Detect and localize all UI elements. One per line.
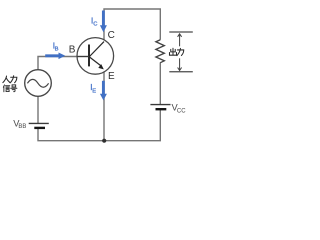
transistor Q1 circle xyxy=(77,38,114,75)
wire: resistor to VCC battery xyxy=(159,62,161,104)
output marker down arrow xyxy=(179,58,181,70)
transistor base lead xyxy=(77,56,89,58)
battery VCC short plate xyxy=(156,108,167,110)
output marker top bar xyxy=(169,31,193,33)
current arrow IB xyxy=(45,54,59,57)
svg-text:CC: CC xyxy=(177,108,186,114)
battery VCC long plate xyxy=(150,104,170,106)
battery VBB short plate xyxy=(34,127,45,129)
wire: collector to top rail to resistor xyxy=(104,9,160,42)
svg-text:B: B xyxy=(55,46,59,52)
wire: source top to base xyxy=(38,57,77,70)
svg-text:C: C xyxy=(93,22,97,28)
transistor collector stroke xyxy=(90,42,105,57)
resistor RL zigzag xyxy=(156,40,164,63)
svg-text:E: E xyxy=(92,88,96,94)
AC source (input signal) xyxy=(25,70,52,97)
svg-text:BB: BB xyxy=(18,124,26,130)
transistor emitter stroke with arrow xyxy=(90,57,102,66)
output marker bottom bar xyxy=(169,71,193,73)
wire: AC source to VBB battery xyxy=(37,96,39,123)
svg-text:E: E xyxy=(108,71,115,82)
current arrow IC xyxy=(102,11,105,26)
kanji 力 (output char 2) xyxy=(177,48,184,55)
kanji 号 (input char 4) xyxy=(11,85,17,92)
current arrow IE xyxy=(102,81,105,94)
transistor base bar xyxy=(88,45,90,67)
junction node at emitter/bottom rail xyxy=(102,139,106,143)
wire: emitter down to bottom rail xyxy=(103,69,105,140)
kanji 信 (input char 3) xyxy=(3,85,9,92)
kanji 出 (output char 1) xyxy=(169,48,176,55)
svg-text:B: B xyxy=(69,44,76,55)
kanji 力 (input char 2) xyxy=(10,76,17,83)
wire: bottom rail xyxy=(38,110,160,141)
battery VBB long plate xyxy=(29,122,49,124)
output marker up arrow xyxy=(179,34,181,46)
kanji 入 (input char 1) xyxy=(3,76,10,83)
svg-text:C: C xyxy=(108,30,115,41)
